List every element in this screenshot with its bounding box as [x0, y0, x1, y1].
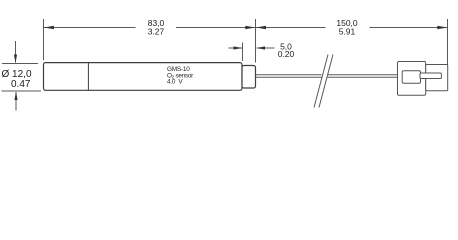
sensor body outline	[44, 63, 243, 91]
svg-text:0.20: 0.20	[278, 49, 295, 59]
connector right block	[426, 65, 448, 91]
dimension 150.0 line right segment	[370, 27, 448, 29]
svg-text:0.47: 0.47	[11, 79, 31, 90]
dimension 5.0 left arrow (outside, pointing right)	[229, 47, 243, 49]
sensor body internal divider line	[87, 63, 89, 91]
dimension 150.0 left arrowhead	[256, 26, 266, 30]
diameter dim top extension line	[2, 63, 38, 65]
cable break slash 1	[314, 55, 328, 108]
extension line at tip start (5.0 dim)	[242, 43, 244, 62]
dimension 83.0 line right segment	[176, 27, 255, 29]
cable lower line	[256, 76, 322, 78]
dimension 150.0 line left segment	[256, 27, 326, 29]
dimension 83.0 line left segment	[44, 27, 136, 29]
dimension 5.0 right arrow (outside, pointing left)	[257, 47, 275, 49]
extension line left of body (83 dim)	[43, 19, 45, 60]
sensor tip	[242, 66, 256, 89]
connector blade terminal	[420, 73, 441, 79]
svg-text:5.91: 5.91	[339, 26, 356, 36]
extension line at sensor tip end (83/150 dim)	[255, 19, 257, 63]
dimension 150.0 right arrowhead	[437, 26, 447, 30]
extension line at connector right (150 dim)	[447, 19, 449, 65]
svg-text:4.0 V: 4.0 V	[167, 78, 183, 85]
connector latch	[402, 71, 420, 83]
diameter dim bottom extension line	[2, 90, 42, 92]
cable break slash 2	[319, 55, 333, 108]
diameter dim bottom arrow (pointing up)	[15, 92, 17, 111]
diameter dim top arrow (pointing down)	[15, 41, 17, 63]
dimension 83.0 right arrowhead	[245, 26, 255, 30]
svg-text:3.27: 3.27	[148, 26, 165, 36]
connector housing left block	[398, 62, 426, 96]
cable upper line	[256, 74, 322, 76]
dimension 83.0 left arrowhead	[44, 26, 54, 30]
